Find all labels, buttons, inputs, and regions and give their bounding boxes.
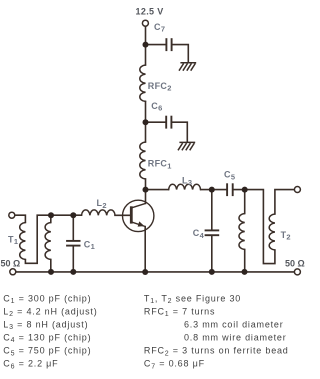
svg-text:RFC2 = 3 turns on ferrite bead: RFC2 = 3 turns on ferrite bead — [144, 346, 289, 358]
svg-text:C4 = 130 pF (chip): C4 = 130 pF (chip) — [3, 333, 91, 345]
svg-text:50 Ω: 50 Ω — [285, 258, 305, 268]
svg-text:C6 = 2.2 μF: C6 = 2.2 μF — [3, 359, 58, 371]
svg-text:0.8 mm wire diameter: 0.8 mm wire diameter — [184, 333, 287, 343]
svg-text:T1, T2 see Figure 30: T1, T2 see Figure 30 — [144, 293, 241, 305]
svg-text:RFC1: RFC1 — [148, 159, 172, 171]
svg-text:C7 = 0.68 μF: C7 = 0.68 μF — [144, 359, 205, 371]
svg-text:L2 = 4.2 nH (adjust): L2 = 4.2 nH (adjust) — [3, 307, 97, 319]
svg-text:6.3 mm coil diameter: 6.3 mm coil diameter — [184, 320, 284, 330]
svg-text:C6: C6 — [151, 101, 162, 113]
svg-text:L2: L2 — [97, 198, 107, 210]
svg-text:C7: C7 — [154, 22, 165, 34]
svg-text:L3 = 8 nH (adjust): L3 = 8 nH (adjust) — [3, 320, 88, 332]
svg-text:C5 = 750 pF (chip): C5 = 750 pF (chip) — [3, 346, 91, 358]
svg-text:RFC2: RFC2 — [148, 81, 172, 93]
svg-text:C1 = 300 pF (chip): C1 = 300 pF (chip) — [3, 293, 91, 305]
svg-text:RFC1 = 7 turns: RFC1 = 7 turns — [144, 307, 215, 319]
svg-text:C5: C5 — [224, 170, 235, 182]
svg-text:T2: T2 — [281, 230, 291, 242]
svg-text:50 Ω: 50 Ω — [1, 258, 21, 268]
svg-text:C1: C1 — [84, 239, 95, 251]
svg-text:C4: C4 — [193, 228, 205, 240]
svg-text:T1: T1 — [8, 234, 18, 246]
svg-text:12.5 V: 12.5 V — [136, 7, 164, 17]
